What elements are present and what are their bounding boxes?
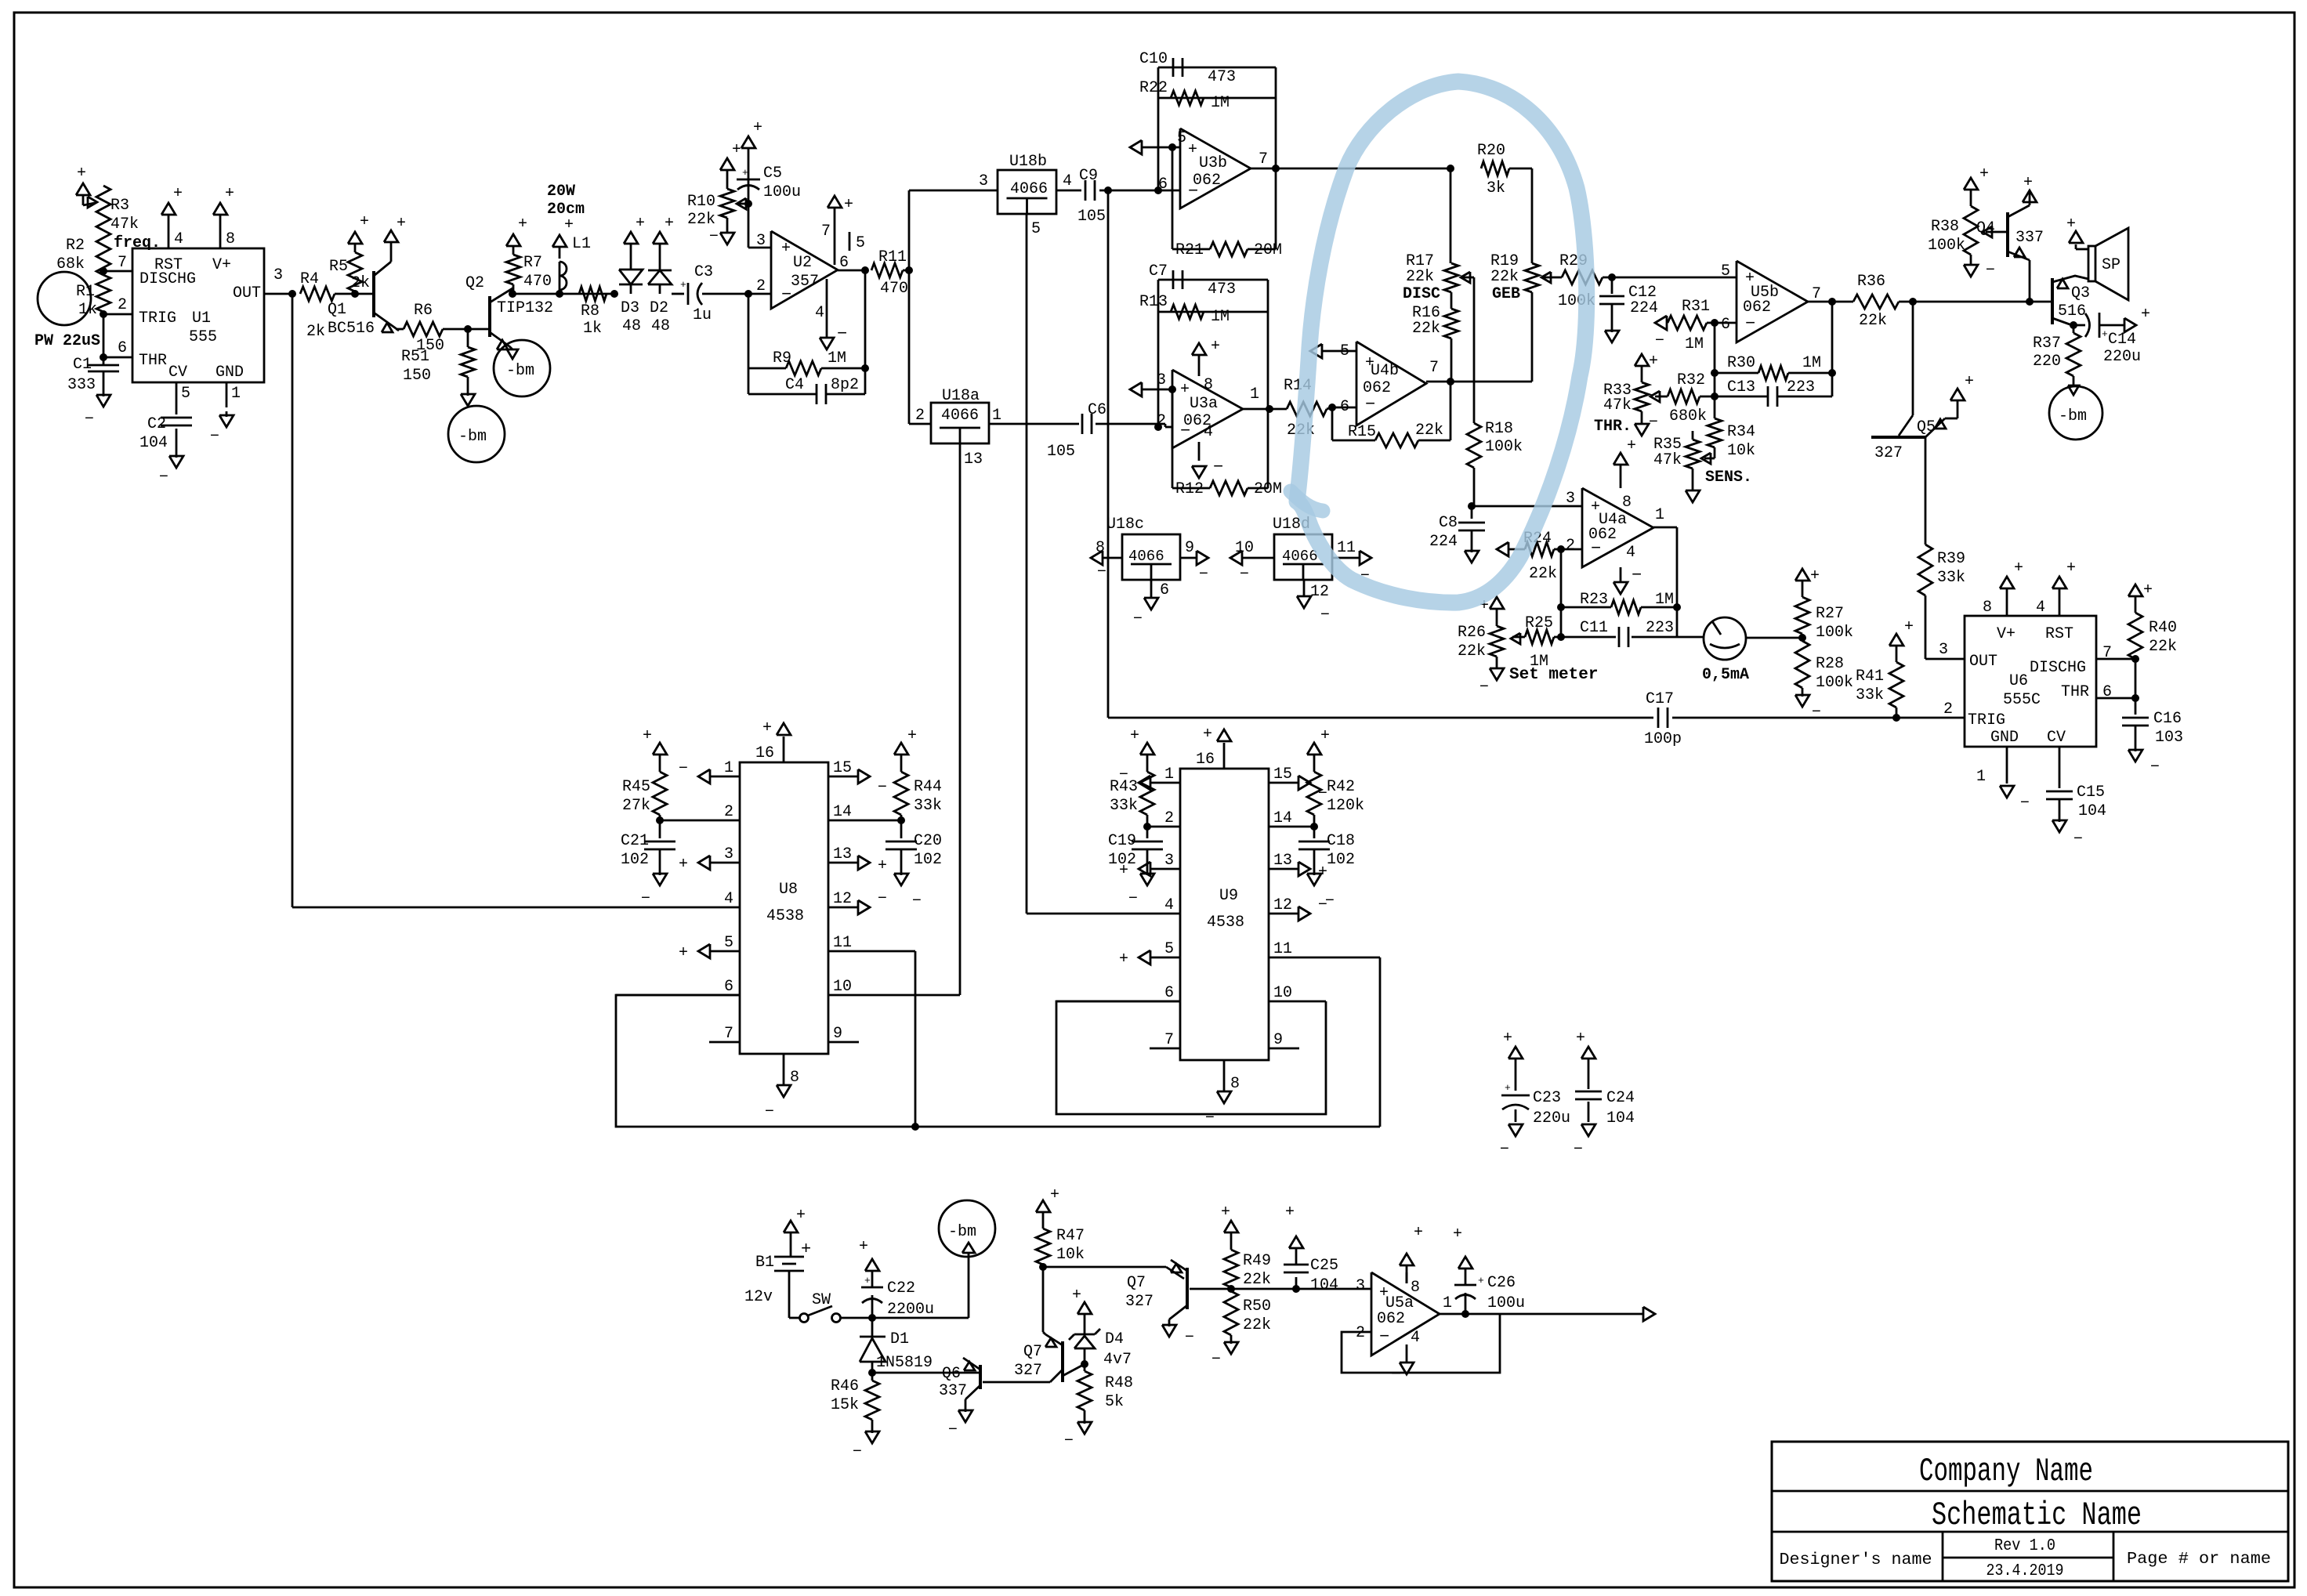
svg-text:−: − [1211,1351,1221,1369]
svg-text:R26: R26 [1458,624,1486,642]
svg-text:2: 2 [1943,700,1953,718]
svg-text:R43: R43 [1110,778,1138,796]
svg-text:+: + [844,196,853,214]
svg-text:5: 5 [724,934,733,952]
svg-text:48: 48 [622,317,641,335]
svg-text:−: − [948,1421,958,1439]
svg-text:V+: V+ [1997,625,2015,643]
svg-text:1: 1 [1976,768,1986,786]
svg-text:4: 4 [174,230,183,248]
svg-text:C16: C16 [2153,710,2182,728]
svg-text:5: 5 [1721,262,1730,280]
svg-text:4: 4 [2036,599,2045,617]
svg-text:327: 327 [1014,1362,1042,1380]
svg-text:1M: 1M [1211,94,1230,112]
svg-text:062: 062 [1363,379,1391,397]
svg-text:2: 2 [118,296,127,314]
svg-text:4066: 4066 [1128,548,1164,565]
svg-text:680k: 680k [1669,407,1707,425]
svg-text:062: 062 [1193,172,1221,190]
svg-text:Q5: Q5 [1917,418,1936,436]
svg-text:10: 10 [833,978,852,996]
svg-text:U18a: U18a [942,387,980,405]
svg-text:−: − [1391,1365,1401,1384]
svg-text:22k: 22k [1458,642,1486,660]
svg-text:R51: R51 [401,348,429,366]
svg-text:THR.: THR. [1594,418,1632,436]
svg-text:−: − [1133,610,1143,628]
svg-text:3: 3 [1566,490,1575,508]
svg-text:OUT: OUT [1969,653,1997,671]
svg-text:1: 1 [1443,1294,1452,1312]
svg-text:Q6: Q6 [942,1365,961,1383]
svg-text:4: 4 [1411,1329,1420,1347]
svg-text:+: + [762,719,772,737]
svg-text:C1: C1 [73,356,92,374]
svg-text:TIP132: TIP132 [497,299,553,317]
svg-text:−: − [2020,794,2030,812]
svg-text:1M: 1M [1655,591,1674,609]
svg-text:5: 5 [1031,220,1041,238]
svg-text:4: 4 [1626,544,1635,562]
svg-text:−: − [1986,262,1995,280]
svg-text:THR: THR [2061,683,2089,701]
svg-text:R9: R9 [773,349,791,367]
svg-text:220u: 220u [2103,348,2141,366]
svg-text:GND: GND [1990,729,2019,747]
svg-text:C13: C13 [1727,378,1755,396]
svg-text:4066: 4066 [1010,180,1048,198]
svg-text:C26: C26 [1487,1274,1516,1292]
svg-text:+: + [859,1238,868,1256]
svg-text:+: + [1180,381,1190,399]
svg-text:C15: C15 [2077,784,2105,802]
svg-text:SW: SW [812,1291,831,1309]
svg-text:+: + [679,856,688,874]
svg-text:4: 4 [1204,423,1213,441]
svg-text:+: + [781,240,791,258]
svg-text:+: + [397,215,406,233]
svg-text:10: 10 [1273,984,1292,1002]
svg-text:4: 4 [724,890,733,908]
svg-text:104: 104 [139,434,168,452]
svg-text:+: + [564,216,574,234]
svg-text:R31: R31 [1682,298,1710,316]
svg-text:+: + [1221,1203,1230,1221]
svg-text:R20: R20 [1477,142,1505,160]
svg-text:2k: 2k [306,323,325,341]
svg-text:−: − [1064,1432,1074,1450]
svg-text:+: + [1904,618,1914,636]
svg-text:−: − [1574,1141,1583,1159]
svg-text:R48: R48 [1105,1374,1133,1392]
svg-text:GEB: GEB [1492,285,1520,303]
svg-text:11: 11 [1273,940,1292,958]
svg-text:−: − [853,1443,862,1461]
svg-text:R4: R4 [300,270,319,288]
svg-text:22k: 22k [1412,320,1440,338]
svg-text:−: − [878,779,887,797]
svg-text:+: + [1576,1030,1585,1048]
svg-text:4538: 4538 [1207,914,1244,932]
svg-text:11: 11 [833,934,852,952]
svg-text:4066: 4066 [1282,548,1318,565]
svg-text:R50: R50 [1243,1297,1271,1316]
svg-text:R2: R2 [66,237,85,255]
svg-text:R47: R47 [1056,1227,1085,1245]
svg-text:C18: C18 [1327,832,1355,850]
svg-text:4: 4 [815,304,824,322]
svg-text:10k: 10k [1056,1246,1085,1264]
svg-text:13: 13 [964,451,983,469]
svg-text:12: 12 [833,890,852,908]
svg-text:102: 102 [914,851,942,869]
svg-text:−: − [210,428,219,446]
svg-text:Q4: Q4 [1976,219,1995,237]
svg-text:16: 16 [755,744,774,762]
svg-text:+: + [1072,1287,1081,1305]
svg-text:22k: 22k [1415,422,1443,440]
svg-text:20W: 20W [547,183,575,201]
svg-text:−: − [1205,1109,1215,1127]
svg-text:R38: R38 [1931,218,1959,236]
svg-text:CV: CV [168,364,187,382]
svg-text:PW 22uS: PW 22uS [34,332,100,350]
svg-text:3k: 3k [1487,179,1505,197]
svg-text:Q1: Q1 [328,301,346,319]
svg-text:R40: R40 [2149,619,2177,637]
svg-text:−: − [1325,892,1335,910]
svg-text:+: + [77,165,86,183]
svg-text:7: 7 [724,1025,733,1043]
svg-text:R1: R1 [76,283,95,301]
svg-text:+: + [1979,165,1989,183]
svg-text:+: + [1211,338,1220,356]
svg-text:+: + [518,215,527,233]
svg-text:R22: R22 [1139,79,1168,97]
svg-text:473: 473 [1208,68,1236,86]
svg-text:freq.: freq. [114,234,161,252]
svg-text:15: 15 [833,759,852,777]
svg-text:104: 104 [1310,1276,1338,1294]
svg-text:+: + [680,279,686,291]
svg-text:105: 105 [1047,443,1075,461]
svg-text:100k: 100k [1816,674,1853,692]
svg-text:−: − [1632,566,1642,585]
svg-text:TRIG: TRIG [1968,711,2005,729]
svg-text:+: + [1503,1030,1512,1048]
svg-text:R42: R42 [1327,778,1355,796]
svg-text:333: 333 [67,376,96,394]
svg-text:5: 5 [856,234,865,252]
svg-text:+: + [1649,353,1658,371]
svg-text:C23: C23 [1533,1089,1561,1107]
svg-text:+: + [1320,727,1330,745]
svg-text:13: 13 [833,845,852,863]
svg-text:+: + [643,727,652,745]
svg-text:100k: 100k [1816,624,1853,642]
svg-text:U6: U6 [2009,672,2028,690]
svg-text:+: + [1478,1275,1484,1287]
svg-text:1k: 1k [583,320,602,338]
svg-text:DISCHG: DISCHG [2030,659,2086,677]
svg-text:337: 337 [939,1382,967,1400]
svg-text:470: 470 [880,280,908,298]
svg-text:+: + [1203,726,1212,744]
svg-text:−: − [709,228,719,246]
svg-text:−: − [1320,606,1330,624]
svg-text:R37: R37 [2033,335,2061,353]
svg-text:9: 9 [1185,539,1194,557]
svg-text:+: + [2023,174,2033,192]
svg-text:2: 2 [1566,537,1575,555]
svg-text:U18b: U18b [1009,153,1047,171]
svg-text:48: 48 [651,317,670,335]
svg-text:C3: C3 [694,263,713,281]
svg-text:C8: C8 [1439,514,1458,532]
svg-text:1M: 1M [1802,354,1821,372]
svg-text:R34: R34 [1727,423,1755,441]
svg-text:14: 14 [1273,809,1292,827]
svg-text:TRIG: TRIG [139,309,176,328]
svg-text:100k: 100k [1928,237,1965,255]
svg-text:3: 3 [1939,641,1948,659]
svg-text:C2: C2 [147,415,166,433]
svg-text:100k: 100k [1485,438,1523,456]
svg-text:U18c: U18c [1106,516,1144,534]
svg-text:5: 5 [1164,940,1174,958]
svg-text:BC516: BC516 [328,320,375,338]
svg-text:+: + [878,857,887,875]
svg-text:1: 1 [231,385,241,403]
svg-text:+: + [665,215,674,233]
svg-text:U9: U9 [1219,887,1238,905]
svg-text:100p: 100p [1644,730,1682,748]
svg-text:Set meter: Set meter [1509,666,1598,684]
svg-text:+: + [1453,1225,1462,1243]
svg-text:−: − [1479,679,1489,697]
svg-text:7: 7 [1164,1031,1174,1049]
svg-text:+: + [2102,328,2108,340]
svg-text:27k: 27k [622,797,650,815]
svg-text:8p2: 8p2 [831,376,859,394]
svg-text:+: + [1627,437,1636,455]
svg-text:8: 8 [1983,599,1992,617]
svg-text:104: 104 [1606,1109,1635,1127]
svg-text:22k: 22k [1243,1316,1271,1334]
svg-text:R30: R30 [1727,354,1755,372]
svg-text:OUT: OUT [233,284,261,302]
svg-text:23.4.2019: 23.4.2019 [1986,1562,2064,1580]
svg-text:R23: R23 [1580,591,1608,609]
svg-text:1u: 1u [693,306,712,324]
svg-text:12v: 12v [744,1288,773,1306]
svg-text:1: 1 [724,759,733,777]
svg-text:+: + [360,213,369,231]
svg-text:33k: 33k [1937,569,1965,587]
svg-text:1M: 1M [1685,335,1704,353]
svg-text:22k: 22k [1490,268,1519,286]
svg-text:4066: 4066 [941,407,979,425]
svg-text:DISCHG: DISCHG [139,270,196,288]
svg-text:2: 2 [1356,1324,1365,1342]
svg-text:104: 104 [2078,802,2106,820]
svg-text:14: 14 [833,803,852,821]
svg-text:4: 4 [1063,172,1072,190]
svg-text:R18: R18 [1485,420,1513,438]
svg-text:−: − [1365,395,1375,414]
svg-text:U1: U1 [192,309,211,328]
svg-text:22k: 22k [1529,565,1557,583]
svg-text:−: − [1745,314,1755,334]
svg-text:V+: V+ [212,256,231,274]
svg-text:Page # or name: Page # or name [2127,1551,2271,1569]
svg-text:2k: 2k [351,274,370,292]
svg-text:327: 327 [1874,444,1903,462]
svg-text:+: + [2143,581,2153,599]
svg-text:33k: 33k [1110,797,1138,815]
svg-text:SENS.: SENS. [1705,469,1752,487]
svg-text:+: + [864,1275,871,1287]
svg-text:+: + [796,1207,806,1225]
svg-text:13: 13 [1273,852,1292,870]
svg-text:473: 473 [1208,280,1236,299]
svg-text:11: 11 [1337,539,1356,557]
svg-text:357: 357 [791,273,819,291]
svg-text:C11: C11 [1580,619,1608,637]
svg-text:−: − [1185,1329,1194,1347]
svg-text:2: 2 [756,277,766,295]
svg-text:3: 3 [273,266,283,284]
svg-text:6: 6 [1160,581,1169,599]
svg-text:−: − [1655,332,1664,350]
svg-text:16: 16 [1196,751,1215,769]
svg-text:R25: R25 [1525,614,1553,632]
svg-text:RST: RST [2045,625,2073,643]
svg-text:+: + [2066,559,2076,577]
svg-text:-bm: -bm [948,1223,976,1241]
svg-text:R8: R8 [581,302,599,320]
svg-text:+: + [1965,373,1974,391]
svg-text:100u: 100u [1487,1294,1525,1312]
svg-text:R6: R6 [414,302,433,320]
svg-text:3: 3 [1164,852,1174,870]
svg-text:12: 12 [1273,896,1292,914]
svg-text:220u: 220u [1533,1109,1570,1127]
svg-text:−: − [1128,890,1138,908]
svg-text:15k: 15k [831,1396,859,1414]
svg-text:R32: R32 [1677,371,1705,389]
svg-text:10k: 10k [1727,442,1755,460]
svg-text:R12: R12 [1175,480,1204,498]
svg-text:−: − [1213,458,1223,477]
svg-text:R15: R15 [1348,423,1376,441]
svg-text:15: 15 [1273,765,1292,784]
svg-text:U4b: U4b [1371,362,1399,380]
svg-text:6: 6 [118,339,127,357]
svg-text:−: − [679,760,688,778]
svg-text:47k: 47k [1603,396,1632,414]
svg-text:Q3: Q3 [2071,284,2090,302]
svg-text:−: − [837,324,847,344]
svg-text:+: + [1285,1203,1295,1221]
svg-text:516: 516 [2058,302,2086,320]
svg-text:47k: 47k [1653,451,1682,469]
svg-text:R46: R46 [831,1377,859,1395]
svg-text:GND: GND [215,364,244,382]
svg-text:8: 8 [1204,376,1213,394]
svg-text:3: 3 [979,172,988,190]
svg-text:+: + [1810,567,1820,585]
svg-text:+: + [1505,1082,1511,1094]
svg-text:U3a: U3a [1190,395,1218,413]
svg-text:7: 7 [1812,285,1821,303]
svg-text:8: 8 [1096,539,1105,557]
svg-text:2: 2 [915,407,925,425]
svg-text:Schematic Name: Schematic Name [1932,1496,2142,1534]
svg-text:−: − [1500,1141,1509,1159]
svg-text:5: 5 [1177,129,1186,147]
svg-text:Q2: Q2 [465,274,484,292]
svg-text:C5: C5 [763,165,782,183]
svg-text:+: + [1050,1186,1059,1204]
svg-text:22k: 22k [1859,312,1887,330]
svg-text:4v7: 4v7 [1103,1351,1132,1369]
svg-text:−: − [1199,566,1208,584]
svg-text:R36: R36 [1857,273,1885,291]
svg-text:R5: R5 [329,258,348,276]
svg-text:1M: 1M [828,349,846,367]
svg-text:R28: R28 [1816,655,1844,673]
svg-text:4538: 4538 [766,907,804,925]
svg-text:6: 6 [1721,316,1730,334]
svg-text:C10: C10 [1139,50,1168,68]
svg-text:223: 223 [1646,619,1674,637]
svg-text:R41: R41 [1856,668,1884,686]
svg-text:+: + [2014,559,2023,577]
svg-text:C4: C4 [785,376,804,394]
svg-text:6: 6 [1164,984,1174,1002]
svg-text:+: + [2066,215,2076,233]
svg-text:105: 105 [1077,208,1106,226]
svg-text:C22: C22 [887,1279,915,1297]
svg-text:−: − [1649,414,1658,432]
svg-text:+: + [679,944,688,962]
svg-text:1: 1 [1250,385,1259,404]
svg-text:5k: 5k [1105,1393,1124,1411]
svg-text:47k: 47k [110,215,139,233]
svg-text:6: 6 [724,978,733,996]
svg-text:470: 470 [523,273,552,291]
svg-text:R21: R21 [1175,241,1204,259]
svg-text:R10: R10 [687,193,715,211]
svg-text:327: 327 [1125,1293,1153,1311]
svg-text:062: 062 [1377,1310,1405,1328]
svg-text:U8: U8 [779,881,798,899]
svg-text:120k: 120k [1327,797,1364,815]
svg-text:−: − [1379,1327,1389,1347]
svg-text:8: 8 [790,1069,799,1087]
svg-text:102: 102 [1108,851,1136,869]
svg-text:6: 6 [839,254,849,272]
svg-text:−: − [878,890,887,908]
svg-text:CV: CV [2047,729,2066,747]
svg-text:−: − [85,411,94,429]
svg-text:224: 224 [1429,533,1458,551]
svg-text:0,5mA: 0,5mA [1702,666,1749,684]
svg-text:+: + [907,727,917,745]
svg-text:555: 555 [189,328,217,346]
